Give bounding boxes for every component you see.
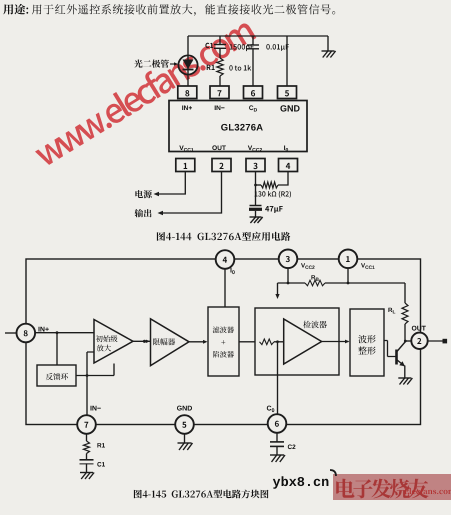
pin name OUT [212, 145, 226, 150]
watermark www.elecfans.com (diagonal red) [30, 14, 256, 168]
label 输出 [135, 209, 152, 217]
photodiode D1 光二极管 [178, 55, 197, 74]
resistor R1 0 to 1k [217, 58, 223, 76]
wire: stub left of pin 8 [5, 332, 17, 334]
wire: detector out to shaper [322, 341, 349, 343]
wire: pin4 down to filter box [224, 269, 226, 308]
wire: pin3 down to node [255, 172, 257, 186]
heading 用途 (bold) [3, 4, 28, 15]
wire: pin2 to output arrow [162, 172, 222, 214]
pin name IN- [215, 106, 225, 111]
logo block background [333, 474, 451, 500]
pin name I0 [284, 146, 288, 152]
pin 1 circle VCC1 [339, 249, 358, 268]
detector amplifier 检波器 [284, 319, 322, 364]
wire: IN- vertical from amp to pin 7 [87, 352, 94, 415]
pin 6 circle C0 [268, 414, 287, 433]
IC U1 GL3276A body [169, 101, 307, 152]
wire: emitter to ground [404, 366, 406, 379]
capacitor 0.01uF [252, 36, 254, 45]
pin 5 box [278, 86, 297, 99]
wire: pin1 down to VCC1 node [347, 268, 349, 283]
pin name IN+ [182, 106, 192, 111]
resistor RL [402, 303, 408, 324]
pin 5 circle GND [175, 415, 194, 434]
transistor Q1 [395, 350, 398, 365]
label IN+ [39, 327, 49, 332]
ground (top right) [327, 36, 329, 51]
resistor inside detector [260, 339, 275, 345]
wire: GND pin 5 riser [286, 36, 288, 86]
limiter amplifier 限幅器 [151, 319, 190, 366]
wire: RL to collector node [404, 324, 406, 341]
wire: pin4 down to R2 [278, 172, 288, 186]
pin 8 circle [17, 324, 36, 343]
label 光二极管 with arrow [134, 60, 169, 68]
ground below C1 [86, 464, 88, 473]
capacitor C2 below pin 6 [276, 433, 278, 442]
filter box 滤波器+陷波器 [208, 307, 239, 376]
pin 7 circle IN- [77, 415, 96, 434]
wire+arrow: VCC2 node into detector [278, 283, 289, 294]
wire+arrow: limiter to filter [189, 341, 206, 343]
wire: pin2 stub with terminal dot [428, 340, 444, 342]
label 电源 [135, 190, 152, 198]
pin 6 box [244, 86, 263, 99]
caption 图4-145 GL3276A型电路方块图 [134, 490, 269, 499]
wire + ground below 47uF [255, 211, 257, 217]
resistor R1 below pin 7 [86, 434, 88, 441]
feedback box 反馈环 [37, 365, 76, 386]
detector box [255, 308, 339, 375]
wire: pin3 down to VCC2 node [287, 268, 289, 283]
description text [32, 4, 335, 16]
wire: C0 node down to pin 6 [277, 342, 279, 414]
wire: photodiode branch vertical [187, 36, 189, 86]
wire: IN+ to preamp [35, 332, 94, 334]
black hook mark [330, 470, 336, 476]
pin 2 circle OUT [411, 333, 427, 349]
IC part number GL3276A [221, 124, 263, 131]
caption 图4-144 GL3276A型应用电路 [157, 232, 290, 241]
capacitor C1 1500pF [219, 36, 221, 45]
pin 8 box [178, 86, 197, 99]
wire: VCC1 node to RL [348, 283, 405, 303]
capacitor 47uF (electrolytic) [255, 185, 257, 206]
pin 7 box [210, 86, 229, 99]
label 130 kΩ (R2) [255, 191, 291, 198]
preamp amplifier 初始级放大 [94, 320, 133, 364]
pin name GND [280, 105, 299, 111]
capacitor C1 below R1 [86, 454, 88, 460]
wire+arrow: preamp to limiter [133, 340, 151, 342]
pin name VCC2 [248, 146, 262, 152]
wire: pin1 to power arrow [158, 172, 185, 195]
logo text 电子发烧友 [336, 479, 428, 499]
pin 3 box [246, 159, 265, 172]
shaper box 波形整形 [350, 309, 384, 376]
block diagram outer boundary [26, 259, 421, 425]
pin name VCC1 [179, 146, 193, 152]
pin 4 box [279, 159, 298, 172]
ground below pin 5 [184, 434, 186, 443]
pin name CD [249, 105, 257, 111]
pin 2 box [212, 159, 231, 172]
pin 4 circle I0 [216, 250, 235, 269]
ybx8.cn black text [273, 476, 329, 489]
resistor R2 130k [256, 184, 262, 186]
resistor RB [288, 282, 305, 284]
pin 3 circle VCC2 [279, 249, 298, 268]
pin 1 box [176, 159, 195, 172]
ground (emitter) [398, 377, 411, 379]
wire: top rail of application circuit [188, 35, 328, 37]
wire: collector node to pin 2 [404, 340, 407, 343]
ground below C2 [276, 446, 278, 455]
logo text Elecfans.com [404, 488, 451, 494]
wire: filter to detector box [239, 341, 255, 343]
wire: feedback output to amp bottom [76, 364, 114, 376]
wire: junction down to feedback box [56, 333, 58, 365]
